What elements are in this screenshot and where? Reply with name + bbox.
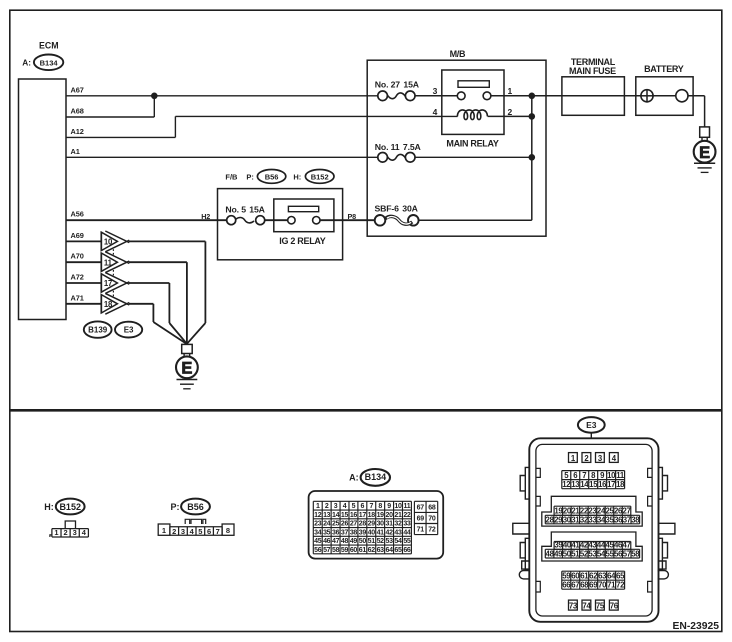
svg-text:1: 1 [162, 526, 166, 535]
svg-text:70: 70 [598, 581, 607, 590]
svg-text:40: 40 [368, 529, 376, 536]
svg-text:62: 62 [368, 547, 376, 554]
svg-text:64: 64 [386, 547, 394, 554]
svg-text:7: 7 [369, 503, 373, 510]
svg-text:66: 66 [403, 547, 411, 554]
svg-text:45: 45 [314, 538, 322, 545]
svg-text:41: 41 [377, 529, 385, 536]
svg-text:A68: A68 [71, 107, 84, 116]
svg-text:31: 31 [386, 521, 394, 528]
svg-text:8: 8 [226, 526, 230, 535]
svg-text:A56: A56 [71, 210, 84, 219]
svg-text:39: 39 [359, 529, 367, 536]
svg-text:14: 14 [332, 512, 340, 519]
svg-text:A67: A67 [71, 85, 84, 94]
svg-text:E: E [181, 359, 192, 377]
svg-text:32: 32 [394, 521, 402, 528]
svg-text:A69: A69 [71, 231, 84, 240]
svg-text:74: 74 [582, 601, 591, 610]
svg-text:A72: A72 [71, 273, 84, 282]
svg-text:23: 23 [314, 521, 322, 528]
svg-text:P:: P: [246, 173, 254, 182]
svg-text:13: 13 [323, 512, 331, 519]
svg-text:EN-23925: EN-23925 [673, 621, 720, 632]
svg-text:16: 16 [350, 512, 358, 519]
svg-text:15: 15 [589, 480, 598, 489]
svg-text:52: 52 [377, 538, 385, 545]
svg-text:A:: A: [22, 58, 31, 68]
svg-text:21: 21 [394, 512, 402, 519]
svg-text:12: 12 [314, 512, 322, 519]
svg-text:44: 44 [403, 529, 411, 536]
svg-text:2: 2 [172, 527, 176, 536]
svg-text:2: 2 [64, 528, 68, 537]
svg-text:53: 53 [386, 538, 394, 545]
svg-text:51: 51 [368, 538, 376, 545]
svg-text:29: 29 [368, 521, 376, 528]
svg-text:57: 57 [323, 547, 331, 554]
svg-text:17: 17 [104, 279, 112, 288]
svg-text:22: 22 [403, 512, 411, 519]
svg-text:70: 70 [428, 516, 436, 523]
svg-text:P:: P: [171, 502, 180, 512]
svg-text:B56: B56 [187, 502, 204, 512]
svg-text:MAIN FUSE: MAIN FUSE [569, 66, 616, 76]
svg-text:69: 69 [589, 581, 598, 590]
svg-text:27: 27 [622, 507, 630, 516]
svg-text:M/B: M/B [450, 49, 466, 59]
svg-text:58: 58 [631, 550, 640, 559]
svg-text:1: 1 [54, 528, 58, 537]
svg-text:48: 48 [341, 538, 349, 545]
svg-text:43: 43 [394, 529, 402, 536]
svg-text:25: 25 [332, 521, 340, 528]
svg-text:18: 18 [104, 300, 113, 309]
svg-text:33: 33 [403, 521, 411, 528]
svg-text:E3: E3 [586, 420, 597, 430]
svg-text:ECM: ECM [39, 40, 59, 50]
svg-text:36: 36 [332, 529, 340, 536]
svg-text:A:: A: [349, 473, 359, 483]
svg-text:65: 65 [394, 547, 402, 554]
svg-text:IG 2 RELAY: IG 2 RELAY [279, 236, 325, 246]
svg-text:26: 26 [341, 521, 349, 528]
svg-text:60: 60 [571, 572, 580, 581]
svg-text:4: 4 [343, 503, 347, 510]
svg-text:B134: B134 [40, 58, 59, 67]
svg-text:11: 11 [616, 471, 625, 480]
svg-text:15: 15 [341, 512, 349, 519]
svg-text:E: E [699, 144, 710, 162]
svg-text:63: 63 [377, 547, 385, 554]
svg-text:57: 57 [623, 550, 631, 559]
svg-text:72: 72 [428, 527, 436, 534]
svg-text:SBF-6 30A: SBF-6 30A [375, 204, 419, 214]
svg-text:73: 73 [569, 601, 578, 610]
svg-text:7: 7 [216, 527, 220, 536]
svg-text:50: 50 [359, 538, 367, 545]
svg-text:68: 68 [580, 581, 589, 590]
svg-text:3: 3 [433, 86, 438, 96]
svg-text:61: 61 [359, 547, 367, 554]
svg-text:24: 24 [323, 521, 331, 528]
svg-text:10: 10 [607, 471, 616, 480]
svg-text:2: 2 [508, 107, 513, 117]
svg-text:6: 6 [361, 503, 365, 510]
svg-text:38: 38 [631, 515, 640, 524]
svg-text:72: 72 [616, 581, 625, 590]
svg-text:68: 68 [428, 504, 436, 511]
svg-text:30: 30 [377, 521, 385, 528]
svg-text:E3: E3 [124, 326, 134, 335]
svg-text:5: 5 [198, 527, 202, 536]
svg-text:37: 37 [623, 515, 631, 524]
svg-text:7: 7 [582, 471, 586, 480]
svg-text:75: 75 [596, 601, 605, 610]
svg-text:69: 69 [417, 516, 425, 523]
svg-text:27: 27 [350, 521, 358, 528]
svg-text:59: 59 [562, 572, 571, 581]
svg-text:4: 4 [433, 107, 438, 117]
svg-text:17: 17 [607, 480, 615, 489]
svg-text:10: 10 [394, 503, 402, 510]
svg-text:62: 62 [589, 572, 598, 581]
svg-text:18: 18 [616, 480, 625, 489]
svg-text:46: 46 [323, 538, 331, 545]
svg-text:B56: B56 [265, 172, 279, 181]
svg-text:B152: B152 [311, 172, 329, 181]
svg-text:47: 47 [622, 541, 630, 550]
svg-text:37: 37 [341, 529, 349, 536]
svg-text:9: 9 [387, 503, 391, 510]
svg-text:63: 63 [598, 572, 607, 581]
svg-text:10: 10 [104, 238, 113, 247]
svg-text:47: 47 [332, 538, 340, 545]
svg-text:6: 6 [207, 527, 211, 536]
svg-text:71: 71 [417, 527, 425, 534]
svg-text:A1: A1 [71, 147, 80, 156]
svg-text:59: 59 [341, 547, 349, 554]
svg-text:H2: H2 [201, 212, 210, 221]
svg-text:67: 67 [417, 504, 425, 511]
svg-text:17: 17 [359, 512, 367, 519]
svg-text:A12: A12 [71, 127, 84, 136]
svg-text:67: 67 [571, 581, 579, 590]
svg-text:71: 71 [607, 581, 616, 590]
svg-text:1: 1 [316, 503, 320, 510]
svg-text:A71: A71 [71, 293, 84, 302]
svg-text:55: 55 [403, 538, 411, 545]
svg-text:56: 56 [314, 547, 322, 554]
svg-text:64: 64 [607, 572, 616, 581]
svg-text:49: 49 [350, 538, 358, 545]
svg-text:61: 61 [580, 572, 589, 581]
svg-text:54: 54 [394, 538, 402, 545]
svg-text:No. 11 7.5A: No. 11 7.5A [375, 142, 422, 152]
svg-text:14: 14 [580, 480, 589, 489]
svg-text:76: 76 [610, 601, 619, 610]
svg-text:No. 5 15A: No. 5 15A [225, 204, 265, 214]
svg-text:B139: B139 [88, 326, 108, 335]
svg-text:BATTERY: BATTERY [644, 64, 684, 74]
svg-text:2: 2 [325, 503, 329, 510]
svg-text:60: 60 [350, 547, 358, 554]
svg-text:H:: H: [44, 502, 54, 512]
svg-text:16: 16 [598, 480, 607, 489]
svg-text:8: 8 [378, 503, 382, 510]
svg-text:B152: B152 [59, 502, 81, 512]
svg-text:3: 3 [334, 503, 338, 510]
svg-text:P8: P8 [348, 212, 357, 221]
svg-text:5: 5 [352, 503, 356, 510]
svg-text:20: 20 [386, 512, 394, 519]
svg-text:58: 58 [332, 547, 340, 554]
svg-text:3: 3 [73, 528, 77, 537]
svg-text:1: 1 [508, 86, 513, 96]
svg-text:19: 19 [377, 512, 385, 519]
svg-text:35: 35 [323, 529, 331, 536]
svg-text:3: 3 [181, 527, 185, 536]
svg-text:B134: B134 [365, 472, 387, 482]
svg-text:F/B: F/B [225, 173, 238, 182]
svg-text:MAIN RELAY: MAIN RELAY [446, 139, 498, 149]
svg-text:H:: H: [293, 173, 301, 182]
svg-text:65: 65 [616, 572, 625, 581]
svg-text:11: 11 [404, 503, 411, 510]
svg-text:38: 38 [350, 529, 358, 536]
svg-text:42: 42 [386, 529, 394, 536]
svg-text:12: 12 [562, 480, 571, 489]
svg-text:18: 18 [368, 512, 376, 519]
svg-text:11: 11 [104, 258, 113, 267]
svg-text:A70: A70 [71, 252, 84, 261]
svg-text:No. 27 15A: No. 27 15A [375, 79, 420, 89]
svg-text:66: 66 [562, 581, 571, 590]
svg-text:34: 34 [314, 529, 322, 536]
svg-text:28: 28 [359, 521, 367, 528]
svg-text:13: 13 [571, 480, 580, 489]
